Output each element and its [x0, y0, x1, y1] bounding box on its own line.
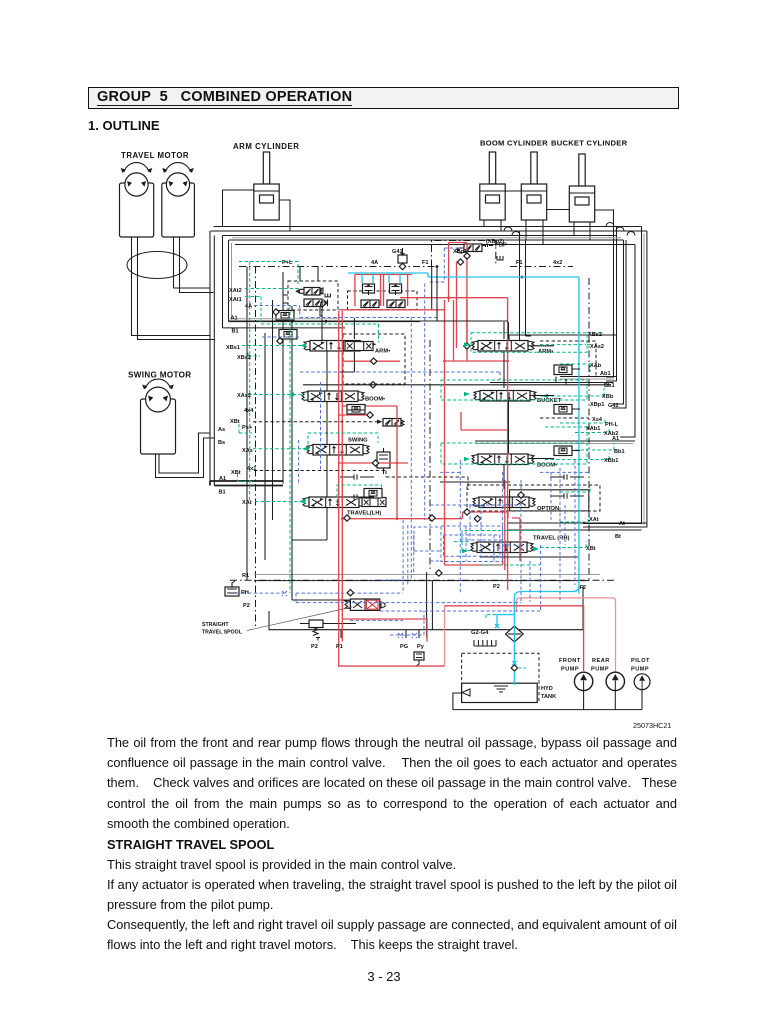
svg-text:TRAVEL SPOOL: TRAVEL SPOOL	[202, 630, 243, 636]
green arrow travel-rh right	[533, 546, 539, 551]
filter G2-G4	[506, 626, 524, 642]
green right envelopes	[471, 333, 587, 352]
blue pilot verticals mid	[425, 248, 460, 520]
wire boom cylinder bridge	[505, 191, 569, 210]
bottom section box	[269, 586, 583, 630]
tank level symbol	[462, 686, 508, 696]
option row solid box	[440, 482, 589, 511]
green envelope travel lh	[337, 485, 382, 505]
right bus verticals	[606, 227, 614, 377]
blue pilot box left of travel-rh	[299, 440, 441, 551]
svg-text:XAt: XAt	[589, 517, 599, 523]
red pilot lines from PBP	[449, 243, 467, 349]
boom cylinder 1	[480, 152, 505, 220]
wire feed to right arm spool	[520, 231, 532, 341]
svg-text:B1: B1	[232, 329, 239, 335]
red right column frame	[445, 298, 508, 590]
svg-text:BOOM•: BOOM•	[365, 397, 385, 403]
red relief loop top	[355, 274, 412, 276]
dashed box mid right	[540, 341, 596, 378]
green spool arrows left	[288, 343, 308, 504]
wire travel motor left pair down	[132, 237, 215, 340]
check valve mid 1	[347, 405, 365, 415]
svg-text:XBs2: XBs2	[588, 332, 602, 338]
wire straight travel box verticals	[427, 572, 433, 637]
spool BOOM left	[302, 391, 364, 402]
PBP pilot valve	[464, 244, 482, 252]
cyan x marks	[495, 624, 516, 665]
green pilot G2 stub	[486, 615, 496, 620]
svg-text:FRONT: FRONT	[559, 658, 581, 664]
svg-text:PUMP: PUMP	[631, 667, 649, 673]
svg-text:ARM•: ARM•	[375, 349, 390, 355]
port Py symbol	[414, 652, 424, 660]
straight travel spool	[350, 599, 379, 610]
spool ARM left	[304, 341, 366, 352]
wire travel motor right pair to bus	[174, 237, 214, 293]
black interconnect verticals mid	[340, 266, 509, 489]
check valve right 2	[554, 405, 572, 415]
green arrows right spools	[462, 342, 548, 553]
green verticals right	[586, 364, 614, 548]
wire travel-rh row bottom	[480, 556, 578, 558]
R1 line	[254, 574, 600, 576]
svg-text:XAb: XAb	[590, 363, 602, 369]
svg-text:PUMP: PUMP	[561, 667, 579, 673]
swing motor rotation arrow	[142, 379, 174, 389]
travel motor left rotation arrow	[121, 163, 153, 173]
wire bundle crossing bumps	[504, 223, 635, 236]
arm pilot spool 2	[345, 342, 377, 351]
green stubs left labels	[254, 471, 468, 491]
svg-text:PH-L: PH-L	[605, 422, 619, 428]
svg-text:4x2: 4x2	[553, 260, 562, 266]
left inner verticals	[246, 267, 248, 581]
svg-text:As: As	[218, 427, 225, 433]
green right pilot stubs	[454, 345, 614, 565]
check valve right 3	[554, 446, 572, 456]
svg-text:XBp1: XBp1	[453, 249, 467, 255]
pink pump frame	[517, 598, 616, 672]
spool TRAVEL LH	[303, 497, 365, 508]
solenoid valve lower	[304, 299, 322, 307]
relief loop valve 1	[363, 284, 375, 295]
inner dash-dot boundary right	[588, 278, 590, 580]
svg-text:Bb1: Bb1	[604, 383, 615, 389]
svg-text:BOOM CYLINDER: BOOM CYLINDER	[480, 139, 548, 148]
travel motor right rotation arrow	[162, 163, 194, 173]
svg-text:4x1: 4x1	[247, 466, 256, 472]
caps right	[550, 474, 584, 479]
svg-text:STRAIGHT: STRAIGHT	[202, 622, 229, 628]
svg-text:P2: P2	[311, 644, 318, 650]
svg-text:A1: A1	[231, 316, 238, 322]
check valve mid 2	[364, 489, 382, 499]
heavy port line A1	[229, 320, 421, 322]
wire cylinder drops	[484, 220, 590, 245]
heavy port lines right	[303, 377, 647, 531]
blue diamonds	[347, 590, 353, 596]
svg-text:4A: 4A	[245, 304, 252, 310]
svg-text:G41: G41	[392, 249, 403, 255]
svg-text:XAt2: XAt2	[229, 288, 242, 294]
black spool connect left col	[292, 351, 327, 540]
inner dash-dot boundary left	[255, 267, 257, 630]
dash-dot center divider	[429, 340, 431, 570]
dashed box around port reliefs	[348, 291, 418, 310]
label pointer line	[247, 607, 352, 631]
svg-text:PILOT: PILOT	[631, 658, 650, 664]
svg-text:XAs2: XAs2	[237, 393, 251, 399]
body paragraph 1	[107, 734, 687, 752]
travel-lh pilot spool 2	[362, 498, 386, 507]
PH pilot valve	[225, 587, 239, 596]
black stub lines right of spools	[347, 346, 580, 459]
tank glyph	[325, 294, 330, 297]
svg-text:P+L: P+L	[282, 260, 293, 266]
spool BUCKET	[474, 391, 536, 402]
junction dots	[341, 296, 509, 520]
svg-text:4A: 4A	[371, 260, 378, 266]
cyan main header	[348, 273, 579, 594]
tank glyph PBP	[497, 256, 503, 260]
swivel joint ellipse	[127, 252, 187, 279]
svg-text:BUCKET CYLINDER: BUCKET CYLINDER	[551, 139, 628, 148]
svg-text:REAR: REAR	[592, 658, 610, 664]
svg-text:TRAVEL (RH): TRAVEL (RH)	[533, 536, 570, 542]
main valve outer frame left	[223, 236, 229, 328]
spool SWING	[307, 445, 369, 456]
svg-text:XAt: XAt	[242, 500, 252, 506]
travel motor left body	[120, 183, 154, 237]
svg-text:BUCKET: BUCKET	[537, 398, 562, 404]
svg-text:PH: PH	[241, 590, 249, 596]
svg-text:4x4: 4x4	[244, 408, 254, 414]
inner dash-dot bottom	[230, 579, 616, 581]
red supply front pump	[339, 311, 584, 671]
wire bucket cylinder right to bus	[595, 210, 614, 227]
svg-text:P2: P2	[493, 584, 500, 590]
red boom-left reliefs	[339, 406, 408, 519]
funnel to arm spool	[320, 302, 326, 341]
relief loop spool 1	[361, 300, 379, 308]
blue pilot to bucket	[300, 372, 500, 380]
svg-text:Bs: Bs	[218, 440, 225, 446]
svg-text:F2: F2	[580, 585, 587, 591]
svg-text:XBt: XBt	[586, 546, 596, 552]
svg-text:Xs4: Xs4	[592, 417, 603, 423]
section heading	[88, 118, 160, 133]
svg-text:F1: F1	[516, 260, 523, 266]
spool ARM right	[472, 341, 534, 352]
tank inner	[462, 683, 538, 702]
svg-text:P1: P1	[336, 644, 343, 650]
check valve right 1	[554, 365, 572, 375]
pilot valve 4x4	[383, 419, 401, 427]
swing motor circle	[146, 387, 171, 412]
tank dashed box	[462, 653, 539, 702]
port G41	[398, 255, 407, 263]
svg-text:Ab1: Ab1	[600, 371, 611, 377]
svg-text:XBt: XBt	[231, 470, 241, 476]
wire swing motor to Bs port	[159, 433, 210, 473]
orifice caps 2	[340, 494, 374, 499]
page number	[0, 969, 768, 984]
red header to spools	[339, 298, 508, 310]
blue pilot horizontals	[254, 306, 438, 318]
swing motor body	[141, 399, 176, 454]
FRONT PUMP	[574, 672, 592, 690]
cyan to tank	[497, 586, 579, 685]
svg-text:XBb1: XBb1	[604, 458, 618, 464]
svg-text:ARM CYLINDER: ARM CYLINDER	[233, 142, 299, 151]
straight travel spool heading	[107, 836, 687, 854]
svg-text:R1: R1	[242, 573, 249, 579]
svg-text:SWING MOTOR: SWING MOTOR	[128, 371, 192, 380]
header bar	[88, 87, 679, 109]
svg-text:G42: G42	[608, 403, 619, 409]
svg-text:Py: Py	[417, 644, 425, 650]
svg-text:PG: PG	[400, 644, 408, 650]
check valve assembly 1	[276, 311, 294, 321]
wire black h right of header	[420, 320, 508, 322]
svg-text:G2-G4: G2-G4	[471, 630, 489, 636]
dash-dot box PBP	[432, 241, 496, 267]
svg-text:XAb1: XAb1	[586, 426, 600, 432]
svg-text:Bt: Bt	[615, 534, 621, 540]
svg-text:At: At	[619, 521, 625, 527]
comb symbol	[474, 640, 496, 646]
svg-text:TANK: TANK	[541, 694, 556, 700]
inner dash-dot boundary top	[239, 266, 573, 268]
svg-text:B1: B1	[219, 490, 226, 496]
dashed box around arm2 spool	[343, 334, 405, 384]
svg-text:PUMP: PUMP	[591, 667, 609, 673]
red diamonds	[344, 515, 350, 521]
svg-text:P2: P2	[243, 603, 250, 609]
svg-text:SWING: SWING	[348, 438, 368, 444]
red supply rear pump	[342, 311, 427, 642]
arm cylinder	[254, 152, 279, 220]
svg-text:TRAVEL(LH): TRAVEL(LH)	[347, 511, 381, 517]
svg-text:A1: A1	[612, 436, 619, 442]
svg-text:BOOM•: BOOM•	[537, 463, 557, 469]
svg-text:XBs2: XBs2	[237, 355, 251, 361]
spool BOOM right	[472, 454, 534, 465]
svg-text:A1: A1	[219, 476, 226, 482]
PBP spring	[457, 248, 464, 253]
spool OPTION	[473, 497, 535, 508]
wire bundle top lines	[214, 226, 642, 228]
orifice caps 1	[340, 474, 374, 479]
port P2 symbol	[300, 623, 356, 625]
pilot valve cluster dashed box	[288, 281, 338, 310]
REAR PUMP	[606, 672, 624, 690]
green pilot lines left	[239, 262, 298, 594]
svg-text:25073HC21: 25073HC21	[633, 721, 671, 730]
relief loop spool 2	[387, 300, 405, 308]
small check diamond in tank line	[511, 665, 517, 671]
PILOT PUMP	[634, 674, 650, 690]
main valve outer frame right	[583, 231, 647, 527]
dashed box around option spool	[467, 485, 600, 511]
valve below swing	[377, 452, 390, 468]
bucket cylinder	[569, 154, 594, 222]
spool TRAVEL RH	[471, 542, 533, 553]
wire bundle pair to A1 B1	[210, 231, 214, 486]
travel motor left circle	[125, 173, 148, 196]
blue x marks	[282, 591, 417, 638]
red mid horizontals	[342, 512, 520, 561]
solenoid valve upper	[296, 288, 323, 296]
blue extra density	[466, 472, 565, 602]
svg-text:HYD: HYD	[541, 686, 553, 692]
red arm port line	[342, 360, 400, 362]
arm-r row box top	[509, 335, 616, 340]
travel motor right circle	[166, 173, 189, 196]
wire arm cylinder to bus	[223, 190, 291, 231]
relief loop valve 2	[390, 284, 402, 295]
svg-text:Ps+: Ps+	[242, 425, 253, 431]
travel motor right body	[162, 183, 195, 237]
port diamond g41	[399, 263, 405, 269]
green envelope travel rh	[462, 531, 541, 551]
svg-text:XAt1: XAt1	[229, 297, 242, 303]
svg-text:XBt: XBt	[230, 419, 240, 425]
frame gray doubles	[231, 243, 233, 318]
pump suction lines	[453, 689, 642, 710]
svg-text:TRAVEL MOTOR: TRAVEL MOTOR	[121, 151, 189, 160]
svg-text:(XBp2): (XBp2)	[486, 239, 504, 245]
svg-text:Bb1: Bb1	[614, 449, 625, 455]
check valve assembly 2	[279, 330, 297, 340]
svg-text:XAs: XAs	[242, 448, 253, 454]
svg-text:XBp1: XBp1	[590, 402, 604, 408]
red diamond arm	[371, 358, 377, 364]
blue envelope travel rh	[441, 526, 503, 562]
svg-text:F1: F1	[422, 260, 429, 266]
green envelope swing	[308, 433, 378, 450]
svg-text:XBb: XBb	[602, 394, 614, 400]
cyan loop dips	[362, 273, 400, 283]
wire swing motor to As port	[156, 438, 215, 478]
svg-text:XAs2: XAs2	[590, 344, 604, 350]
svg-text:XBs1: XBs1	[226, 345, 240, 351]
boom cylinder 2	[521, 152, 546, 220]
P1 PG stubs	[341, 630, 419, 638]
